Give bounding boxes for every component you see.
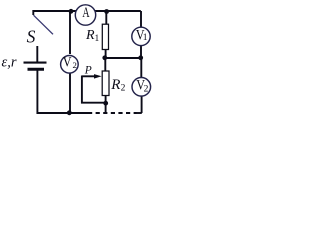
svg-text:2: 2 [73,60,77,70]
svg-text:1: 1 [95,34,100,44]
svg-text:1: 1 [143,33,148,43]
svg-text:V: V [63,55,72,71]
svg-text:P: P [84,64,92,76]
svg-text:S: S [27,27,36,47]
svg-text:2: 2 [121,84,126,94]
svg-text:R: R [110,77,120,93]
svg-text:R: R [85,28,95,43]
svg-text:2: 2 [144,84,149,94]
svg-text:A: A [82,5,89,21]
svg-text:ε,r: ε,r [2,54,17,70]
